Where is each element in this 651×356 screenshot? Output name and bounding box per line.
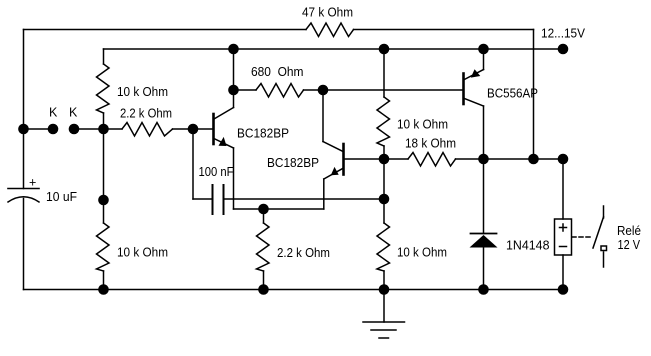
wire 18k left lead [384, 158, 408, 160]
node Q1 collector [228, 85, 239, 96]
node bottom diode [478, 284, 489, 295]
wire K line right [74, 128, 122, 130]
svg-text:BC182BP: BC182BP [267, 156, 319, 170]
svg-text:2.2 k Ohm: 2.2 k Ohm [277, 246, 330, 260]
wire R9 to bottom rail [383, 271, 385, 290]
wire R2 to K line [103, 113, 105, 129]
node 12V terminal [558, 44, 569, 55]
transistor Q1 emitter slant [214, 139, 234, 149]
svg-text:100 nF: 100 nF [199, 165, 234, 179]
transistor Q1 collector slant [214, 108, 234, 120]
wire left mid column [103, 129, 105, 223]
node terminal K1 [48, 124, 59, 135]
ground bar 1 [363, 321, 405, 323]
node relay top [558, 154, 569, 165]
wire base line to Q3 [323, 89, 462, 91]
node left rail K [18, 124, 29, 135]
node rail2 Q3 [478, 44, 489, 55]
wire emitter bus y208 [234, 208, 324, 210]
transistor Q1 bar [212, 114, 215, 144]
wire mid column top [383, 49, 385, 97]
node Q1 base [188, 124, 199, 135]
wire mid column middle [383, 159, 385, 223]
node terminal K2 [69, 124, 80, 135]
svg-text:10 uF: 10 uF [46, 190, 77, 204]
resistor R9 10 k Ohm [377, 223, 390, 271]
diode D1 triangle [470, 235, 498, 248]
capacitor C2 right plate [223, 185, 225, 214]
svg-text:10 k Ohm: 10 k Ohm [117, 85, 168, 99]
transistor Q2 bar [342, 144, 345, 175]
ground stem [383, 290, 385, 323]
svg-text:BC182BP: BC182BP [237, 127, 289, 141]
wire Q2 collector drop [322, 90, 324, 142]
wire diode top lead [483, 159, 485, 234]
wire R7 to bottom rail [103, 271, 105, 290]
wire 18k right lead [456, 158, 484, 160]
wire Q1 base [193, 128, 212, 130]
svg-text:12 V: 12 V [618, 238, 641, 252]
wire relay top lead [562, 159, 564, 219]
wire R8 top lead [263, 209, 265, 223]
node rail2 Q1 [228, 44, 239, 55]
transistor Q2 emitter slant [324, 168, 343, 179]
wire R3 to node [173, 128, 194, 130]
relay contact top lead [603, 206, 605, 218]
node Q3 collector [478, 154, 489, 165]
resistor R3 2.2 k Ohm [122, 123, 173, 137]
svg-text:10 k Ohm: 10 k Ohm [397, 246, 447, 260]
resistor R7 10 k Ohm [97, 223, 110, 271]
wire 680 right lead [304, 89, 324, 91]
wire top rail left [24, 29, 307, 31]
wire rail2 corner down [103, 49, 105, 64]
svg-text:10 k Ohm: 10 k Ohm [117, 246, 168, 260]
svg-text:K: K [49, 106, 58, 120]
svg-text:BC556AP: BC556AP [487, 87, 538, 101]
transistor Q2 emitter arrow [331, 167, 339, 175]
ground bar 3 [379, 337, 389, 339]
wire top rail right [354, 29, 534, 31]
wire second rail V+ [104, 48, 564, 50]
wire Q3 collector down [483, 106, 485, 159]
wire 680 left lead [234, 89, 257, 91]
svg-text:10 k Ohm: 10 k Ohm [397, 118, 448, 132]
node Q2 collector [318, 85, 329, 96]
capacitor C2 left plate [212, 185, 214, 214]
node divider mid [379, 154, 390, 165]
resistor R6 18 k Ohm [408, 153, 456, 167]
wire relay bottom lead [562, 255, 564, 290]
node rail2 mid [379, 44, 390, 55]
transistor Q3 emitter slant [464, 70, 483, 80]
svg-text:47 k Ohm: 47 k Ohm [302, 6, 353, 20]
svg-text:+: + [29, 176, 36, 190]
node bottom ground [379, 284, 390, 295]
transistor Q2 collector slant [323, 142, 343, 152]
capacitor C1 top plate [8, 188, 39, 190]
relay contact terminal square [601, 246, 607, 251]
node right drop [528, 154, 539, 165]
wire C2 right lead y199 [225, 198, 385, 200]
relay contact blade [593, 217, 604, 248]
relay K1 coil box [555, 219, 572, 255]
resistor R5 10 k Ohm [377, 97, 390, 146]
resistor R4 680 Ohm [256, 84, 304, 98]
node bottom 1 [98, 284, 109, 295]
relay contact bottom lead [603, 252, 605, 267]
svg-text:K: K [69, 106, 78, 120]
svg-text:1N4148: 1N4148 [506, 239, 550, 253]
svg-text:12...15V: 12...15V [541, 27, 586, 41]
wire Q3 emitter up [483, 49, 485, 70]
svg-text:Relé: Relé [617, 224, 641, 238]
node left mid [98, 195, 109, 206]
wire dashed link to contact [572, 236, 591, 238]
transistor Q3 bar [462, 74, 465, 105]
wire R5 to node [383, 146, 385, 159]
wire diode bottom lead [483, 248, 485, 290]
node bottom 2 [258, 284, 269, 295]
wire Q1 emitter down [233, 148, 235, 209]
wire Q2 base [345, 158, 384, 160]
relay K1 plus sign [560, 224, 567, 231]
wire Q2 emitter down [323, 179, 325, 209]
transistor Q1 emitter arrow [219, 137, 227, 146]
wire C2 left lead [193, 198, 212, 200]
svg-text:2.2 k Ohm: 2.2 k Ohm [120, 107, 172, 121]
resistor R2 10 k Ohm [97, 64, 110, 113]
ground bar 2 [371, 329, 396, 331]
wire R8 to bottom rail [263, 271, 265, 290]
node bottom relay [558, 284, 569, 295]
wire left rail upper [23, 30, 25, 189]
wire Q1 collector drop [233, 49, 235, 108]
wire C2 node drop [192, 129, 194, 199]
resistor R8 2.2 k Ohm [257, 223, 270, 271]
node emitter bus [258, 204, 269, 215]
wire node row y158 [484, 158, 564, 160]
wire left rail lower [23, 199, 25, 290]
node K divider [98, 124, 109, 135]
wire right drop from top rail [533, 30, 535, 160]
wire K line left [24, 128, 54, 130]
resistor R1 47 k Ohm [306, 23, 354, 37]
node cap mid [379, 194, 390, 205]
relay K1 minus sign [560, 246, 567, 248]
diode D1 cathode bar [471, 233, 497, 235]
svg-text:18 k Ohm: 18 k Ohm [405, 137, 456, 151]
svg-text:680 Ohm: 680 Ohm [251, 65, 304, 79]
wire bottom rail [24, 289, 564, 291]
capacitor C1 curved plate [8, 197, 39, 202]
transistor Q3 collector slant [464, 99, 483, 107]
transistor Q3 emitter arrow [471, 69, 481, 77]
